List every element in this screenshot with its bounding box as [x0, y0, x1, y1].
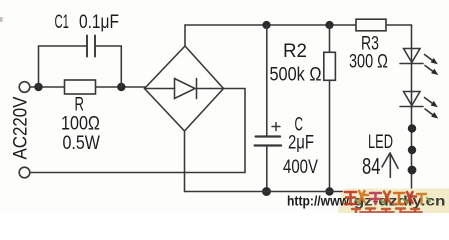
wire top bus — [185, 24, 412, 26]
svg-text:500k Ω: 500k Ω — [270, 63, 322, 84]
bridge rectifier D diamond — [145, 46, 224, 131]
wire C1 loop right — [96, 46, 122, 87]
svg-text:http://www: http://www — [287, 193, 350, 209]
LED LED1 arrows — [425, 55, 434, 72]
wire C branch lower — [266, 146, 268, 192]
bridge diode triangle — [175, 79, 196, 99]
bridge diode cathode bar — [196, 79, 198, 99]
resistor R — [65, 80, 96, 94]
node B junction dot — [117, 83, 125, 91]
wire T1 to R — [30, 86, 145, 88]
scan speck — [0, 17, 3, 22]
LED LED1 — [400, 49, 423, 64]
svg-text:R2: R2 — [283, 41, 307, 62]
LED count arrow — [382, 153, 398, 177]
resistor R2 — [324, 52, 336, 80]
wire right column — [411, 25, 413, 192]
wire R2 branch lower — [329, 80, 331, 191]
capacitor C plus sign — [272, 123, 280, 131]
AC220V terminal T2 — [19, 167, 30, 178]
wire C1 loop left — [39, 46, 87, 87]
wire bridge bottom stub — [184, 131, 186, 192]
wire bridge top stub — [184, 25, 186, 46]
node F junction dot — [325, 187, 333, 195]
capacitor C polarized — [255, 137, 282, 146]
svg-text:400V: 400V — [283, 156, 318, 177]
capacitor C1 — [87, 36, 95, 57]
node ellipsis dot 3 — [408, 166, 417, 175]
LED LED2 arrows — [425, 98, 434, 116]
wire C branch upper — [266, 25, 268, 136]
svg-text:0.1μF: 0.1μF — [79, 10, 119, 32]
svg-text:LED: LED — [368, 132, 393, 153]
node C junction dot — [262, 21, 270, 29]
node ellipsis dot 1 — [408, 124, 416, 132]
svg-text:2μF: 2μF — [288, 132, 314, 153]
watermark — [287, 189, 449, 214]
svg-text:AC220V: AC220V — [10, 97, 31, 160]
node ellipsis dot 2 — [408, 146, 416, 154]
AC220V terminal T1 — [19, 82, 30, 93]
node A junction dot — [34, 83, 42, 91]
wire bridge right to T2 — [30, 89, 245, 173]
bridge diode lead left — [145, 88, 175, 90]
svg-text:C1: C1 — [55, 12, 69, 33]
node E junction dot — [262, 187, 271, 196]
svg-text:0.5W: 0.5W — [63, 132, 101, 154]
svg-text:300 Ω: 300 Ω — [349, 51, 388, 72]
LED LED2 — [400, 92, 423, 107]
resistor R3 — [356, 19, 386, 31]
svg-text:84: 84 — [362, 155, 380, 180]
wire R2 branch upper — [329, 25, 331, 52]
node D junction dot — [325, 21, 333, 29]
bridge diode lead right — [197, 88, 224, 90]
svg-text:100Ω: 100Ω — [61, 112, 100, 134]
wire bottom bus — [185, 191, 412, 193]
